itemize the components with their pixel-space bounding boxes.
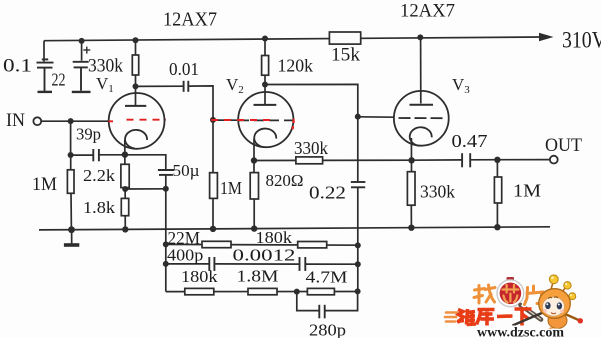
body — [548, 313, 567, 329]
wire down to 39p row — [70, 121, 72, 155]
wire V2 cathode lead — [253, 139, 255, 173]
wei — [458, 310, 464, 323]
svg-text:IN: IN — [6, 111, 25, 131]
svg-text:0.1: 0.1 — [3, 56, 32, 77]
antenna balls — [549, 275, 558, 284]
resistor 330k (V1 plate load) — [132, 55, 138, 75]
resistor 1M (output) — [494, 177, 501, 203]
node V3 cathode — [408, 157, 414, 163]
resistor 1.8k — [121, 198, 128, 215]
wire V2 anode to V3 grid column — [265, 84, 358, 291]
eyes — [545, 302, 550, 309]
wire 280p bypass loop left — [297, 292, 319, 311]
svg-text:www.dzsc.com: www.dzsc.com — [477, 326, 564, 338]
wire 330k to ground rail — [410, 205, 412, 228]
node V2 grid tap — [210, 117, 216, 123]
triode V3 anode — [410, 37, 434, 104]
node feedback row1 right — [355, 242, 361, 248]
wire 0.47 to OUT — [471, 159, 550, 161]
wire capacitor 39p to cathode node — [100, 154, 125, 156]
ground symbol — [64, 230, 79, 245]
wire B+ supply rail — [44, 37, 541, 41]
wire IN to V1 grid — [41, 120, 109, 122]
wire rail to 120k — [264, 39, 266, 56]
wire V2 grid — [213, 119, 239, 121]
node 39p / 1M junction — [68, 152, 74, 158]
svg-text:39p: 39p — [76, 125, 101, 144]
node row3 right — [355, 288, 361, 294]
mouth — [551, 313, 556, 314]
resistor 120k (V2 plate load) — [262, 56, 269, 76]
ku — [478, 308, 495, 312]
node rail / V3 anode feed — [417, 34, 423, 40]
svg-text:400p: 400p — [167, 246, 203, 265]
svg-text:1M: 1M — [32, 174, 57, 195]
capacitor 0.0012 — [300, 257, 306, 271]
triode V2 grid (dashed) — [239, 119, 294, 121]
arrow to 310V supply — [539, 33, 554, 41]
capacitor 280p — [319, 305, 324, 319]
svg-text:120k: 120k — [278, 56, 314, 76]
svg-text:1M: 1M — [220, 178, 242, 198]
watermark character zhao (find) — [474, 285, 495, 303]
node 50u / 2.2k row junction — [163, 186, 169, 192]
triode V3 grid (dashed) — [399, 117, 445, 119]
node rail/R 330k top — [133, 37, 139, 43]
wire V1 anode to 0.01 — [136, 85, 184, 87]
wire feedback row2 left — [166, 263, 209, 265]
node V2 anode — [262, 82, 268, 88]
resistor 820 ohm — [250, 173, 258, 199]
svg-text:12AX7: 12AX7 — [400, 1, 455, 22]
resistor 180k (row3) — [185, 288, 214, 294]
node ground 1.8k — [122, 226, 128, 232]
wire 1M to ground rail — [496, 203, 498, 227]
resistor 1.8M — [248, 288, 277, 294]
wire V3 cathode lead — [410, 138, 412, 172]
watermark magnifier stamp — [497, 277, 524, 307]
triode V3 envelope — [394, 91, 449, 146]
arm with red-tip stick — [564, 314, 579, 321]
svg-text:280p: 280p — [309, 320, 346, 338]
node ground V2 1M — [210, 226, 216, 232]
resistor 1M (V1 grid) — [67, 170, 74, 194]
wire 50u down through feedback column — [165, 175, 167, 292]
node ground 820 — [251, 225, 257, 231]
watermark text wei ku yi xia — [457, 309, 532, 326]
wire feedback row2 mid — [215, 263, 299, 265]
node V1 anode — [133, 83, 139, 89]
node 2.2k/1.8k junction — [122, 186, 128, 192]
node ground V1 grid — [68, 226, 75, 233]
svg-text:1M: 1M — [513, 181, 541, 201]
legs — [549, 328, 554, 334]
wire output node to 1M — [496, 160, 498, 177]
face — [543, 297, 565, 316]
wire 0.01 to V2 grid column — [189, 86, 213, 228]
svg-text:330k: 330k — [294, 138, 328, 158]
antenna stalks — [551, 283, 572, 299]
svg-text:820Ω: 820Ω — [266, 171, 304, 190]
wire 1M to ground rail — [70, 193, 72, 229]
polarity mark + — [83, 47, 90, 54]
svg-text:0.01: 0.01 — [169, 59, 199, 79]
svg-text:330k: 330k — [420, 182, 455, 202]
watermark magnifier handle — [521, 305, 542, 320]
red watermark mark lower — [292, 126, 295, 129]
triode V1 grid (red watermark dashes) — [127, 119, 167, 121]
wire V2 cathode to V3 cathode row — [254, 159, 412, 161]
triode V2 anode — [254, 85, 277, 105]
yi — [497, 314, 513, 318]
svg-text:4.7M: 4.7M — [306, 267, 348, 286]
triode V1 anode — [125, 86, 146, 106]
terminal IN — [33, 117, 41, 125]
node IN / grid resistor tap — [68, 118, 74, 124]
capacitor 0.01 coupling — [184, 81, 189, 92]
red watermark dashes over V2 grid — [211, 119, 274, 121]
node row3 / 280p left — [294, 289, 300, 295]
wire ground rail — [39, 227, 550, 230]
node ground V3 330k — [408, 225, 414, 231]
wire from rail down to capacitor 0.1 — [43, 41, 45, 62]
blush — [543, 309, 547, 313]
wire to capacitor 39p — [71, 154, 93, 156]
svg-text:180k: 180k — [256, 228, 293, 247]
node output / 1M — [494, 157, 500, 163]
watermark speed dashes — [445, 313, 457, 322]
triode V2 cathode — [254, 129, 276, 148]
capacitor 39p — [93, 149, 99, 161]
svg-text:2.2k: 2.2k — [83, 166, 116, 185]
capacitor 400p — [209, 257, 214, 271]
wire V1 cathode lead — [124, 140, 126, 164]
svg-text:310V: 310V — [562, 28, 601, 53]
wire resistor 330k to V1 anode node — [135, 75, 137, 86]
wire 2.2k junction to 50u column — [125, 188, 166, 190]
capacitor 50u — [158, 170, 174, 175]
capacitor 0.1 — [37, 59, 54, 92]
watermark mascot — [513, 275, 584, 334]
svg-text:0.22: 0.22 — [309, 183, 346, 203]
wire 120k to V2 anode node — [264, 75, 266, 84]
wire 1.8k to ground rail — [124, 216, 126, 230]
wire from rail down to capacitor 22 — [81, 41, 83, 61]
svg-text:15k: 15k — [331, 46, 361, 66]
node ground output 1M — [494, 224, 500, 230]
watermark character pian (chip) — [525, 286, 544, 305]
node feedback row1 left — [163, 241, 169, 247]
wire cathode to output cap — [412, 159, 462, 161]
wire feedback row2 right — [306, 263, 358, 265]
resistor 2.2k — [121, 164, 129, 187]
triode V1 envelope — [109, 93, 165, 149]
red watermark tick left of V1 — [109, 120, 114, 122]
wire feedback row1 — [166, 243, 358, 246]
resistor 4.7M — [307, 288, 334, 294]
svg-text:50µ: 50µ — [173, 161, 200, 180]
wire feedback row3 — [166, 291, 358, 293]
triode V3 cathode — [410, 127, 432, 146]
triode V1 cathode — [125, 130, 147, 149]
wire 1M grid resistor branch — [70, 155, 72, 170]
svg-text:22: 22 — [52, 70, 66, 90]
resistor 330k (V3 cathode) — [407, 172, 415, 206]
head — [539, 289, 571, 319]
wire cathode row to 50u branch — [125, 155, 166, 170]
resistor 1M (V2 grid) — [210, 173, 218, 199]
node V3 grid tap — [355, 114, 361, 120]
svg-text:0.0012: 0.0012 — [233, 246, 296, 265]
resistor 330k (cathode link) — [296, 157, 323, 164]
svg-text:12AX7: 12AX7 — [163, 9, 217, 31]
node V1 cathode — [122, 151, 128, 157]
wire rail to resistor 330k — [135, 40, 137, 55]
wire 280p bypass loop right — [325, 291, 357, 310]
red watermark marks at V2 edge — [293, 119, 295, 123]
resistor 22M — [202, 241, 231, 247]
svg-text:1.8M: 1.8M — [237, 267, 279, 286]
resistor 15k (rail dropper) — [329, 32, 360, 44]
node rail / 120k top — [262, 36, 268, 42]
svg-text:OUT: OUT — [545, 136, 582, 156]
xia — [515, 307, 532, 311]
capacitor 22 (electrolytic) — [72, 62, 91, 92]
svg-text:180k: 180k — [181, 267, 218, 286]
svg-text:0.47: 0.47 — [452, 131, 488, 151]
node rail/electrolytic junction — [79, 38, 85, 44]
resistor 180k (row1) — [298, 242, 327, 248]
capacitor 0.47 — [462, 153, 470, 167]
bow (dark stick) — [513, 310, 551, 326]
capacitor 0.22 — [351, 182, 366, 187]
wire V3 grid — [358, 116, 394, 118]
wire 820 to ground rail — [253, 199, 255, 229]
node feedback row2 left — [163, 261, 169, 267]
triode V2 envelope — [238, 92, 293, 147]
node V2 cathode — [251, 157, 257, 163]
node feedback row2 right — [355, 261, 361, 267]
hair tufts — [548, 297, 558, 299]
wire 2.2k to 1.8k — [124, 188, 126, 199]
svg-text:1.8k: 1.8k — [83, 198, 116, 217]
terminal OUT — [550, 156, 558, 164]
